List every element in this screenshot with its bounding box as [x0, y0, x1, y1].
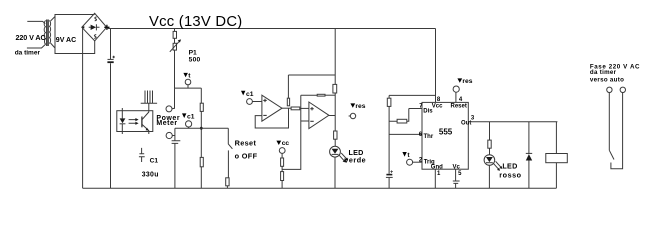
op-amp U1B	[309, 102, 329, 129]
transformer T1 primary lead top	[27, 21, 45, 23]
op-amp U1A feedback loop	[255, 108, 288, 128]
resistor R4	[226, 178, 229, 186]
svg-text:3: 3	[471, 115, 475, 121]
wire Vcc branch column	[334, 29, 336, 85]
wire Vt horizontal	[175, 87, 202, 89]
svg-text:c1: c1	[187, 113, 195, 120]
connector J1 stem	[148, 103, 150, 110]
relay contact terminal 2	[620, 87, 625, 92]
wire R11 to ground	[281, 181, 283, 189]
wire R6 to U1B	[300, 107, 309, 109]
optocoupler U2 led cathode stub	[121, 124, 123, 134]
svg-text:555: 555	[439, 127, 453, 136]
node junction dot Vc1	[200, 127, 203, 130]
svg-text:220 V AC: 220 V AC	[16, 33, 46, 42]
resistor R10	[281, 158, 284, 166]
relay K1 coil wire top	[555, 122, 557, 154]
diode D4 flyback	[528, 122, 530, 154]
wire to power meter terminal 1	[172, 88, 175, 109]
svg-text:rosso: rosso	[499, 170, 521, 179]
svg-text:P1: P1	[189, 49, 197, 56]
node Vt trig terminal	[407, 159, 413, 165]
svg-text:Dis: Dis	[423, 109, 433, 115]
wire Vc1 to op-amp U1A	[252, 101, 262, 103]
svg-text:cc: cc	[282, 140, 290, 147]
wire R10 to R11	[281, 166, 283, 171]
optocoupler U2 box	[117, 111, 153, 132]
svg-text:Meter: Meter	[156, 120, 177, 127]
resistor RA	[387, 98, 391, 106]
LED D3 rosso	[484, 155, 495, 166]
wire top loop	[288, 74, 335, 76]
resistor R11	[281, 172, 284, 181]
wire Out pin 3	[468, 121, 557, 123]
transformer T1 secondary lead bottom	[51, 43, 56, 48]
bridge rectifier D1 ac mark bottom	[94, 35, 96, 39]
wire R4 to ground	[226, 186, 228, 188]
svg-text:Vcc (13V DC): Vcc (13V DC)	[149, 14, 242, 30]
wire U1A output	[282, 107, 291, 109]
bridge rectifier D1 plus terminal	[104, 25, 109, 30]
svg-text:o OFF: o OFF	[235, 151, 258, 160]
wire ground rail	[83, 187, 557, 189]
resistor R9	[334, 131, 337, 139]
svg-text:c1: c1	[246, 91, 254, 98]
wire U1B feedback vertical	[282, 95, 301, 169]
bridge rectifier D1 minus arrow	[81, 26, 84, 28]
node Vc1 op-amp input terminal	[247, 99, 253, 105]
node Vres reset label	[457, 78, 462, 82]
svg-text:t: t	[407, 152, 410, 159]
wire R12 to LED rosso	[489, 148, 491, 155]
svg-text:500: 500	[189, 56, 201, 63]
potentiometer P1 arrow	[170, 41, 180, 52]
svg-text:da timer: da timer	[15, 50, 41, 57]
power meter terminal 1	[166, 106, 172, 112]
node Vc1 label	[182, 113, 186, 118]
optocoupler U2 led	[120, 118, 126, 123]
wire R9 to LED verde	[334, 139, 336, 146]
wire Gnd pin 1	[434, 169, 436, 188]
LED D2 verde	[330, 146, 341, 157]
resistor R7	[317, 94, 325, 96]
node Vcc divider label	[276, 141, 281, 145]
svg-text:Vc: Vc	[453, 164, 461, 170]
wire LED verde to ground	[334, 157, 336, 188]
wire Vcc terminal to R10	[281, 153, 283, 158]
node Vcc divider terminal	[279, 148, 285, 154]
relay contact terminal 1	[607, 87, 612, 92]
bridge rectifier D1 body	[82, 13, 107, 41]
optocoupler U2 arrows	[129, 120, 137, 124]
wire U1B output	[329, 115, 335, 117]
relay K1 coil	[546, 154, 568, 163]
svg-text:res: res	[355, 103, 365, 110]
node Vres reset terminal	[453, 86, 459, 92]
svg-text:Gnd: Gnd	[431, 164, 443, 170]
wire Vcc to C1	[110, 29, 112, 60]
resistor R12	[488, 140, 491, 148]
wire Vt to R2	[200, 88, 202, 103]
capacitor Ct	[386, 174, 392, 176]
transformer T1 primary coil	[44, 21, 46, 45]
transformer T1 primary lead bottom	[27, 45, 45, 49]
wire R2 to node Vc1	[200, 111, 202, 157]
wire Thr pin 6	[389, 133, 422, 135]
wire Vcc rail	[107, 28, 436, 30]
resistor R2	[200, 103, 203, 111]
optocoupler U2 collector	[142, 111, 149, 120]
wire 555 supply horizontal	[389, 94, 435, 96]
resistor R3	[200, 157, 203, 166]
capacitor C3	[453, 181, 460, 183]
wire Vc pin 5	[455, 169, 457, 181]
wire C1 to ground	[110, 63, 112, 188]
svg-text:verde: verde	[344, 155, 366, 164]
switch SW1 reset	[228, 128, 232, 149]
bridge rectifier D1 diode	[89, 24, 100, 30]
op-amp U1A	[262, 95, 282, 121]
wire RB horizontal	[389, 109, 409, 122]
wire U1B feedback top	[301, 94, 317, 96]
wire R5 to top loop	[287, 75, 289, 98]
wire R7 to x335	[325, 94, 335, 96]
svg-text:Vcc: Vcc	[432, 104, 443, 110]
node Vt trig label	[402, 152, 406, 157]
node Vt label	[183, 73, 188, 77]
svg-text:330u: 330u	[142, 171, 159, 178]
wire RA down to Ct	[388, 106, 390, 173]
relay K1 coil wire bottom	[555, 163, 557, 189]
svg-text:LED: LED	[502, 161, 517, 170]
wire U1B minus input	[301, 120, 309, 122]
potentiometer P1 body	[173, 43, 176, 50]
wire Vt to Trig pin 2	[413, 161, 422, 163]
wire Ct to ground	[388, 177, 390, 188]
svg-text:5: 5	[458, 171, 462, 177]
connector J1 bar	[141, 102, 157, 104]
wire C3 to ground	[455, 183, 457, 188]
relay contact wire left	[608, 93, 610, 151]
resistor R1	[173, 31, 176, 38]
node Vres terminal op-amp output	[349, 115, 351, 117]
transformer T1 secondary coil	[49, 21, 51, 43]
node Vc1 op-amp input label	[241, 91, 245, 96]
svg-text:da timer: da timer	[590, 69, 617, 76]
wire Dis pin 7	[409, 108, 422, 110]
power meter terminal 2	[166, 132, 172, 138]
svg-text:Reset: Reset	[451, 104, 467, 110]
svg-text:Reset: Reset	[235, 139, 257, 148]
resistor R8	[333, 84, 337, 93]
wire C2 to ground	[174, 143, 176, 188]
svg-text:1: 1	[437, 171, 441, 177]
capacitor C1 electrolytic	[108, 58, 114, 60]
timer 555 box	[422, 102, 468, 169]
wire Vc1 horizontal	[175, 127, 228, 129]
wire Vcc to P1	[174, 29, 176, 32]
wire out to R12	[489, 122, 491, 140]
wire P1 to Vt node	[174, 50, 176, 88]
wire to RA	[388, 95, 390, 98]
svg-text:C1: C1	[150, 157, 159, 164]
resistor R6	[291, 107, 300, 110]
svg-text:Thr: Thr	[424, 134, 434, 140]
svg-text:9V AC: 9V AC	[56, 37, 76, 44]
connector J1 pins	[145, 91, 153, 104]
resistor RB	[397, 119, 407, 123]
transformer T1 core	[47, 20, 49, 47]
svg-text:verso auto: verso auto	[590, 77, 624, 84]
transformer T1 secondary lead top	[51, 17, 56, 22]
node Vc1 terminal	[186, 121, 192, 127]
capacitor C2	[174, 128, 176, 140]
optocoupler U2 transistor bar	[141, 117, 143, 128]
wire bridge minus to ground rail	[82, 27, 84, 188]
capacitor C1 symbol floating	[139, 148, 145, 162]
relay contact wire right	[611, 93, 623, 169]
svg-text:res: res	[462, 78, 472, 85]
optocoupler U2 led anode stub	[121, 108, 123, 118]
wire R1 to P1	[174, 38, 176, 43]
bridge rectifier D1 ac mark top	[95, 17, 97, 21]
wire LED rosso to ground	[488, 165, 490, 188]
wire R8 down	[334, 93, 336, 131]
node Vres label op-amp output	[350, 103, 355, 107]
wire Vcc rail to 555 pin 8	[435, 29, 437, 103]
wire secondary loop	[55, 15, 95, 54]
resistor R5	[287, 98, 289, 106]
wire R3 to ground	[200, 167, 202, 188]
svg-text:t: t	[188, 72, 191, 79]
optocoupler U2 emitter	[142, 124, 149, 134]
node Vt terminal	[185, 79, 191, 85]
wire Vres to pin 4	[455, 92, 457, 102]
relay contact blade	[609, 150, 614, 159]
